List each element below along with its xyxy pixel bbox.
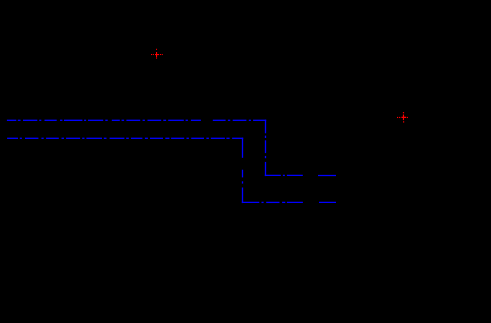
wire: centerline A vertical run [265,120,267,177]
wire: centerline B tail dash [319,201,336,203]
wire: centerline B upper horizontal run [7,137,243,139]
node B: red point marker cross 2 [397,112,408,122]
wire: centerline A upper horizontal run [7,119,266,121]
wire: centerline B vertical run [242,138,244,204]
node A: red point marker cross 1 [151,49,163,59]
wire: centerline A lower horizontal run [265,174,303,176]
wire: centerline B lower horizontal run [242,201,303,203]
wire: centerline A tail dash [318,175,336,177]
